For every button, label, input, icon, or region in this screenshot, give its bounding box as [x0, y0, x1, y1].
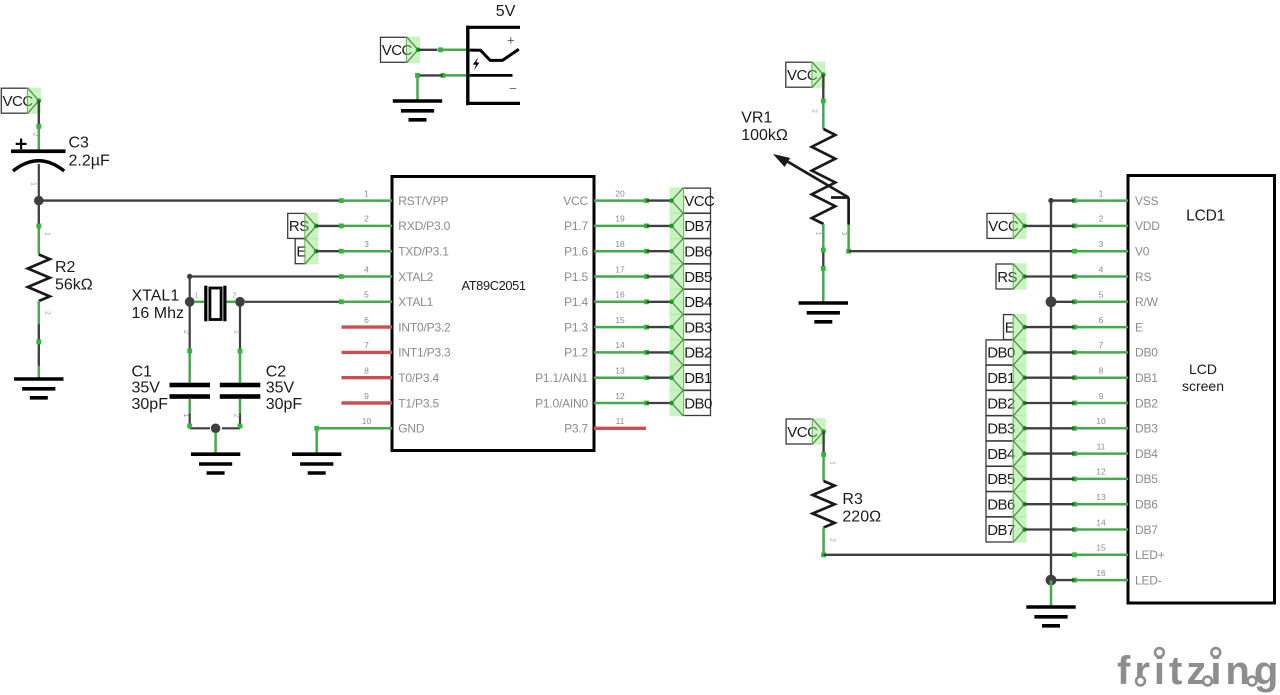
wire C1 to node B — [182, 399, 210, 429]
svg-text:RS: RS — [1135, 270, 1151, 284]
unconnected pin 9 ratsnest stub — [342, 401, 393, 404]
svg-text:R3: R3 — [842, 491, 863, 508]
label XTAL1 16 Mhz — [132, 287, 184, 322]
svg-text:11: 11 — [1097, 441, 1106, 451]
svg-text:220Ω: 220Ω — [842, 509, 881, 526]
svg-text:5: 5 — [1099, 290, 1104, 300]
potentiometer VR1 resistive element — [812, 129, 836, 224]
svg-text:C2: C2 — [266, 363, 287, 380]
wire node A to U1 pin 1 (RST/VPP) — [44, 198, 393, 203]
svg-text:RST/VPP: RST/VPP — [398, 194, 448, 208]
net flag DB4 (LCD side) — [986, 440, 1027, 466]
svg-text:screen: screen — [1182, 378, 1224, 394]
svg-text:1: 1 — [195, 293, 199, 300]
svg-text:XTAL2: XTAL2 — [398, 270, 433, 284]
svg-text:11: 11 — [616, 416, 625, 426]
svg-text:9: 9 — [1099, 391, 1104, 401]
svg-text:DB5: DB5 — [1135, 472, 1158, 486]
svg-text:R2: R2 — [55, 259, 76, 276]
power flag VCC (R3) — [786, 418, 826, 444]
wire U1 pin 16 to DB4 flag — [594, 299, 672, 304]
svg-text:E: E — [1135, 320, 1143, 334]
svg-text:P1.7: P1.7 — [564, 219, 588, 233]
svg-text:19: 19 — [615, 214, 625, 224]
ground (VR1) — [799, 303, 848, 322]
svg-text:35V: 35V — [132, 380, 161, 397]
wire VCC to R3 pin 1 — [821, 432, 835, 482]
svg-text:DB4: DB4 — [987, 446, 1015, 463]
wire VCC flag to LCD pin 2 — [1025, 225, 1075, 227]
svg-text:1: 1 — [44, 232, 51, 236]
net flag DB0 (LCD side) — [986, 339, 1027, 365]
svg-text:14: 14 — [615, 340, 625, 350]
ground (LCD) — [1026, 607, 1075, 626]
wire RS flag to U1 pin 2 — [316, 224, 392, 229]
svg-text:+: + — [507, 32, 515, 47]
svg-text:2: 2 — [364, 214, 369, 224]
svg-text:T1/P3.5: T1/P3.5 — [398, 396, 439, 410]
svg-text:DB4: DB4 — [1135, 447, 1158, 461]
node A junction dot — [34, 196, 44, 206]
net flag VCC (LCD side) — [987, 213, 1027, 239]
wire bus to LCD R/W — [1051, 301, 1075, 303]
label C2 35V 30pF — [266, 363, 303, 413]
svg-text:15: 15 — [1096, 543, 1106, 553]
net flag DB7 (U1 side) — [669, 213, 712, 239]
svg-text:VDD: VDD — [1135, 219, 1160, 233]
net flag VCC (U1 side) — [669, 187, 715, 213]
svg-text:R/W: R/W — [1135, 295, 1159, 309]
svg-text:P1.3: P1.3 — [564, 320, 588, 334]
svg-text:8: 8 — [364, 366, 369, 376]
net flag RS (U1 RXD/P3.0) — [288, 213, 319, 239]
svg-text:DB3: DB3 — [1135, 422, 1158, 436]
LCD1 pin name labels — [1135, 194, 1165, 588]
wire DB1 flag to LCD pin 8 — [1025, 377, 1075, 379]
svg-text:13: 13 — [615, 366, 625, 376]
wire U1 pin 19 to DB7 flag — [594, 224, 672, 229]
wire ground bus (VSS/RW/LED-) — [1048, 198, 1053, 580]
node B junction dot — [211, 424, 221, 434]
wire bus to ground — [1050, 580, 1053, 607]
wire bus to LCD LED- — [1051, 579, 1075, 581]
svg-text:30pF: 30pF — [266, 396, 303, 413]
svg-text:6: 6 — [1099, 315, 1104, 325]
svg-text:VR1: VR1 — [741, 110, 772, 127]
svg-text:DB7: DB7 — [1135, 523, 1158, 537]
svg-text:15: 15 — [615, 315, 625, 325]
wire node B to ground — [214, 433, 217, 455]
label LCD screen — [1182, 361, 1224, 394]
svg-text:DB6: DB6 — [684, 244, 712, 261]
power flag VCC (C3 branch) — [1, 88, 41, 114]
wire bus to LCD VSS — [1051, 199, 1075, 201]
svg-text:XTAL1: XTAL1 — [398, 295, 433, 309]
svg-text:2.2µF: 2.2µF — [69, 153, 110, 170]
unconnected pin 8 ratsnest stub — [342, 376, 393, 379]
svg-text:DB0: DB0 — [987, 345, 1015, 362]
IC U1 pin numbers — [362, 188, 625, 426]
svg-text:10: 10 — [1096, 416, 1106, 426]
net flag DB1 (LCD side) — [986, 365, 1027, 391]
svg-text:7: 7 — [1099, 340, 1104, 350]
svg-text:1: 1 — [364, 188, 369, 198]
svg-text:DB2: DB2 — [1135, 396, 1158, 410]
svg-text:2: 2 — [829, 538, 836, 542]
svg-text:GND: GND — [398, 422, 425, 436]
svg-text:T0/P3.4: T0/P3.4 — [398, 371, 439, 385]
wire DB5 flag to LCD pin 12 — [1025, 478, 1075, 480]
svg-text:RXD/P3.0: RXD/P3.0 — [398, 219, 450, 233]
fritzing watermark logo — [1117, 644, 1280, 693]
net flag DB2 (LCD side) — [986, 390, 1027, 416]
node R/W junction dot — [1046, 296, 1057, 307]
unconnected pin 6 ratsnest stub — [342, 325, 393, 328]
svg-text:XTAL1: XTAL1 — [132, 287, 180, 304]
svg-text:P1.4: P1.4 — [564, 295, 588, 309]
wire node A to R2 pin 1 — [36, 205, 50, 255]
svg-text:2: 2 — [182, 330, 189, 334]
svg-text:DB3: DB3 — [684, 319, 712, 336]
svg-text:AT89C2051: AT89C2051 — [461, 278, 525, 293]
label R2 56k — [55, 259, 93, 294]
wire RS flag to LCD pin 4 — [1025, 275, 1075, 277]
svg-text:2: 2 — [811, 109, 818, 113]
resistor R3 — [813, 481, 835, 528]
wire U1 pin 10 (GND) to ground — [314, 426, 392, 454]
potentiometer VR1 wiper arrow — [773, 154, 849, 225]
LCD1 body — [1128, 176, 1275, 604]
wire VCC to VR1 pin 2 — [811, 75, 826, 129]
svg-text:P3.7: P3.7 — [564, 422, 588, 436]
net flag E (U1 TXD/P3.1) — [295, 238, 318, 264]
svg-text:14: 14 — [1096, 517, 1106, 527]
power flag VCC (VR1) — [786, 62, 826, 88]
svg-text:DB0: DB0 — [684, 395, 712, 412]
svg-text:3: 3 — [840, 232, 847, 236]
wire DB2 flag to LCD pin 9 — [1025, 402, 1075, 404]
svg-text:2: 2 — [44, 311, 51, 315]
svg-text:–: – — [510, 81, 517, 95]
svg-text:VCC: VCC — [684, 193, 715, 210]
wire U1 pin 17 to DB5 flag — [594, 274, 672, 279]
svg-text:1: 1 — [1099, 188, 1104, 198]
svg-text:C3: C3 — [69, 135, 90, 152]
svg-text:8: 8 — [1099, 366, 1104, 376]
svg-text:P1.6: P1.6 — [564, 245, 588, 259]
IC U1 AT89C2051 body — [392, 177, 594, 451]
svg-text:17: 17 — [615, 264, 625, 274]
svg-text:16: 16 — [615, 290, 625, 300]
net flag DB5 (LCD side) — [986, 466, 1027, 492]
net flag DB2 (U1 side) — [669, 339, 712, 365]
svg-text:18: 18 — [615, 239, 625, 249]
wire E flag to LCD pin 6 — [1025, 326, 1075, 328]
svg-text:P1.0/AIN0: P1.0/AIN0 — [535, 396, 588, 410]
svg-text:6: 6 — [364, 315, 369, 325]
svg-text:10: 10 — [362, 416, 372, 426]
capacitor C3 (2.2uF polarized) — [11, 139, 66, 171]
svg-text:4: 4 — [364, 264, 369, 274]
svg-text:LCD1: LCD1 — [1186, 208, 1225, 225]
unconnected pin 7 ratsnest stub — [342, 351, 393, 354]
svg-text:DB1: DB1 — [1135, 371, 1158, 385]
svg-text:DB1: DB1 — [987, 370, 1015, 387]
svg-text:DB1: DB1 — [684, 370, 712, 387]
wire crystal pin 1 to C1 — [182, 307, 192, 383]
svg-text:2: 2 — [233, 293, 237, 300]
svg-text:DB5: DB5 — [987, 471, 1015, 488]
svg-text:2: 2 — [232, 414, 239, 418]
svg-text:13: 13 — [1096, 492, 1106, 502]
wire DB7 flag to LCD pin 14 — [1025, 528, 1075, 530]
svg-text:P1.1/AIN1: P1.1/AIN1 — [535, 371, 588, 385]
LCD1 pin numbers — [1096, 188, 1106, 578]
svg-text:DB3: DB3 — [987, 421, 1015, 438]
wire E flag to U1 pin 3 — [316, 249, 392, 254]
wire crystal pin 1 to U1 pin 4 (XTAL2) — [187, 274, 392, 297]
svg-text:3: 3 — [364, 239, 369, 249]
power flag VCC (battery +) — [381, 37, 421, 63]
wire R3 pin 2 to LCD LED+ — [821, 528, 1074, 558]
ground (C1 C2) — [191, 454, 240, 473]
wire U1 pin 14 to DB2 flag — [594, 350, 672, 355]
svg-text:DB5: DB5 — [684, 269, 712, 286]
wire DB0 flag to LCD pin 7 — [1025, 351, 1075, 353]
svg-text:P1.2: P1.2 — [564, 346, 588, 360]
svg-text:DB7: DB7 — [684, 218, 712, 235]
svg-text:LED-: LED- — [1135, 573, 1162, 587]
svg-text:100kΩ: 100kΩ — [741, 127, 788, 144]
wire C3 pin 1 to node A — [30, 164, 39, 197]
net flag DB3 (LCD side) — [986, 415, 1027, 441]
IC U1 pin name labels — [398, 194, 588, 436]
svg-text:INT1/P3.3: INT1/P3.3 — [398, 346, 451, 360]
LCD1 pin stubs — [1072, 198, 1128, 582]
wire U1 pin 18 to DB6 flag — [594, 249, 672, 254]
wire DB3 flag to LCD pin 10 — [1025, 427, 1075, 429]
net flag DB6 (U1 side) — [669, 238, 712, 264]
label VR1 100k — [741, 110, 788, 145]
svg-text:INT0/P3.2: INT0/P3.2 — [398, 320, 451, 334]
net flag DB0 (U1 side) — [669, 390, 712, 416]
wire DB4 flag to LCD pin 11 — [1025, 452, 1075, 454]
svg-text:30pF: 30pF — [132, 396, 169, 413]
svg-text:VSS: VSS — [1135, 194, 1159, 208]
svg-text:4: 4 — [1099, 264, 1104, 274]
wire battery - to ground — [415, 73, 466, 101]
net flag RS (LCD side) — [996, 263, 1027, 289]
wire U1 pin 12 to DB0 flag — [594, 401, 672, 406]
svg-text:LCD: LCD — [1189, 361, 1217, 377]
net flag DB7 (LCD side) — [986, 516, 1027, 542]
svg-text:1: 1 — [829, 461, 836, 465]
wire crystal pin 2 to U1 pin 5 (XTAL1) — [245, 299, 392, 304]
label AT89C2051 — [461, 278, 525, 293]
svg-text:35V: 35V — [266, 380, 295, 397]
svg-text:16: 16 — [1096, 568, 1106, 578]
node LED- junction dot — [1046, 575, 1057, 586]
wire VCC to battery + — [418, 47, 467, 52]
svg-text:1: 1 — [182, 414, 189, 418]
label C3 2.2uF — [69, 135, 110, 170]
net flag DB4 (U1 side) — [669, 289, 712, 315]
svg-text:56kΩ: 56kΩ — [55, 277, 93, 294]
svg-text:3: 3 — [1099, 239, 1104, 249]
resistor R2 — [28, 255, 50, 302]
svg-text:DB4: DB4 — [684, 294, 712, 311]
wire U1 pin 20 to VCC flag — [594, 198, 672, 203]
svg-text:1: 1 — [30, 182, 37, 186]
svg-text:12: 12 — [615, 391, 625, 401]
svg-text:DB7: DB7 — [987, 522, 1015, 539]
wire DB6 flag to LCD pin 13 — [1025, 503, 1075, 505]
svg-text:20: 20 — [615, 188, 625, 198]
battery BAT1 5V symbol — [466, 26, 520, 106]
svg-text:DB6: DB6 — [987, 497, 1015, 514]
label LCD1 — [1186, 208, 1225, 225]
wire VR1 pin 3 (wiper) to LCD V0 — [840, 225, 1075, 254]
unconnected pin 11 ratsnest stub (P3.7) — [594, 427, 646, 430]
net flag DB3 (U1 side) — [669, 314, 712, 340]
svg-text:12: 12 — [1096, 467, 1106, 477]
svg-text:C1: C1 — [132, 363, 153, 380]
svg-text:P1.5: P1.5 — [564, 270, 588, 284]
wire C2 to node B — [222, 399, 242, 429]
wire VCC to C3 pin 2 — [32, 101, 42, 150]
net flag E (LCD side) — [1004, 314, 1027, 340]
ground (U1 GND) — [292, 454, 341, 473]
net flag DB5 (U1 side) — [669, 263, 712, 289]
capacitor C2 — [220, 383, 260, 399]
svg-text:5V: 5V — [496, 3, 516, 20]
capacitor C1 — [170, 383, 211, 399]
svg-text:7: 7 — [364, 340, 369, 350]
crystal XTAL1 symbol — [185, 286, 245, 322]
svg-text:V0: V0 — [1135, 245, 1150, 259]
svg-text:DB6: DB6 — [1135, 498, 1158, 512]
label R3 220 — [842, 491, 881, 526]
svg-text:DB2: DB2 — [684, 345, 712, 362]
svg-text:VCC: VCC — [563, 194, 588, 208]
svg-text:1: 1 — [815, 232, 822, 236]
net flag DB6 (LCD side) — [986, 491, 1027, 517]
ground (battery) — [393, 101, 442, 120]
svg-text:LED+: LED+ — [1135, 548, 1165, 562]
svg-text:16 Mhz: 16 Mhz — [132, 305, 184, 322]
svg-text:DB2: DB2 — [987, 395, 1015, 412]
svg-text:5: 5 — [364, 290, 369, 300]
svg-text:2: 2 — [1099, 214, 1104, 224]
svg-text:DB0: DB0 — [1135, 346, 1158, 360]
wire VR1 pin 1 to ground — [815, 224, 826, 303]
wire U1 pin 15 to DB3 flag — [594, 325, 672, 330]
net flag DB1 (U1 side) — [669, 365, 712, 391]
ground (R2) — [14, 379, 63, 398]
svg-text:2: 2 — [32, 133, 39, 137]
wire crystal pin 2 to C2 — [232, 307, 242, 383]
label 5V — [496, 3, 516, 20]
wire U1 pin 13 to DB1 flag — [594, 375, 672, 380]
svg-text:9: 9 — [364, 391, 369, 401]
svg-text:1: 1 — [232, 330, 239, 334]
svg-text:TXD/P3.1: TXD/P3.1 — [398, 245, 449, 259]
label C1 35V 30pF — [132, 363, 169, 413]
wire R2 pin 2 to ground — [36, 301, 50, 379]
